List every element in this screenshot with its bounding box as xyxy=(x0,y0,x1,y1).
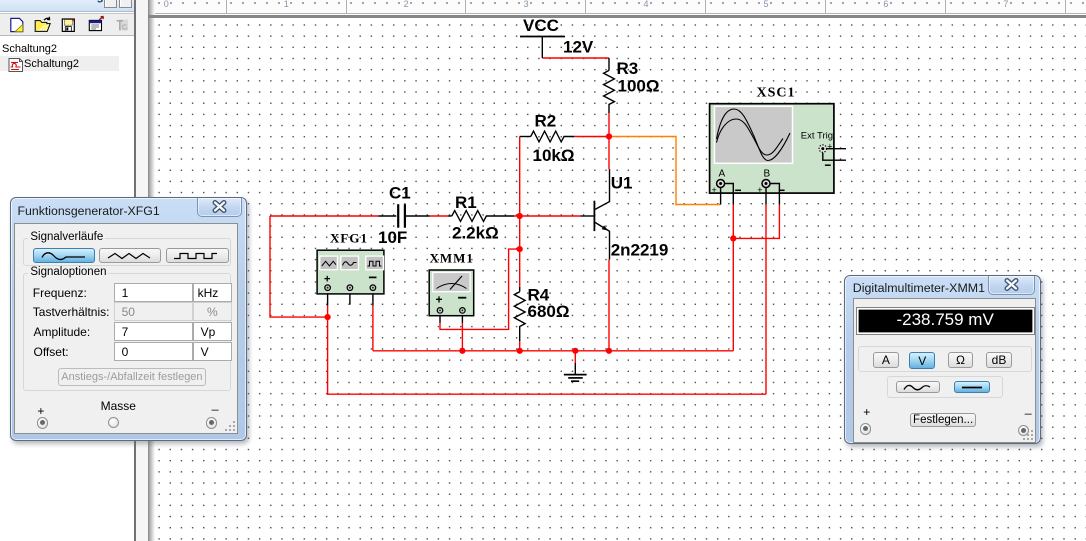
svg-text:100Ω: 100Ω xyxy=(618,77,660,96)
svg-text:B: B xyxy=(764,169,771,180)
svg-text:10F: 10F xyxy=(378,228,407,247)
svg-text:XFG1: XFG1 xyxy=(330,231,368,246)
svg-text:XSC1: XSC1 xyxy=(757,86,796,101)
svg-text:R3: R3 xyxy=(617,59,639,78)
svg-text:+: + xyxy=(827,141,832,151)
svg-text:C1: C1 xyxy=(389,183,411,202)
svg-text:+: + xyxy=(712,185,717,195)
svg-text:R2: R2 xyxy=(535,111,557,130)
svg-text:R1: R1 xyxy=(455,193,477,212)
svg-text:+: + xyxy=(324,274,330,286)
svg-text:XMM1: XMM1 xyxy=(430,250,474,265)
svg-text:+: + xyxy=(436,293,443,307)
svg-text:Ext Trig: Ext Trig xyxy=(801,131,833,142)
svg-text:680Ω: 680Ω xyxy=(528,302,570,321)
svg-text:2n2219: 2n2219 xyxy=(611,241,669,260)
svg-text:VCC: VCC xyxy=(523,16,559,35)
svg-text:10kΩ: 10kΩ xyxy=(533,146,575,165)
svg-text:12V: 12V xyxy=(563,38,594,57)
svg-text:2.2kΩ: 2.2kΩ xyxy=(452,224,499,243)
svg-text:U1: U1 xyxy=(611,174,633,193)
svg-text:+: + xyxy=(757,185,762,195)
svg-text:A: A xyxy=(719,169,726,180)
